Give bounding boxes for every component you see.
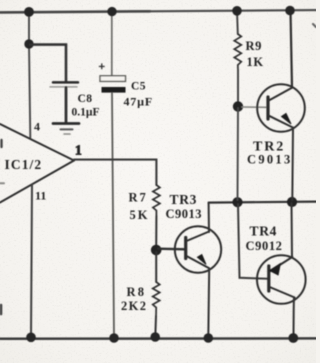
C5 negative plate (102, 87, 126, 93)
transistor TR2 (257, 84, 305, 132)
wire mid node to TR4 base (238, 204, 269, 279)
svg-text:R9: R9 (246, 39, 262, 53)
wire TR2 emitter to mid rail (291, 128, 294, 200)
node junction at C8 branch (24, 39, 33, 48)
svg-text:R8: R8 (127, 285, 147, 299)
wire TR3 emitter to ground rail (207, 268, 210, 337)
svg-text:5K: 5K (130, 208, 150, 222)
op-amp IC1/2 (0, 124, 74, 203)
wire R9 to TR2 base node (237, 70, 239, 104)
edge mark left lower (0, 305, 2, 314)
wire C5 bottom lead to ground rail (112, 93, 114, 338)
wire TR2 base lead (242, 106, 267, 108)
wire bottom ground rail (0, 337, 316, 340)
svg-text:R7: R7 (129, 191, 148, 205)
wire op-amp pin 11 to ground rail (31, 185, 32, 338)
wire base node down to mid node (237, 108, 240, 200)
wire top supply rail (0, 11, 150, 12)
node junction R7 R8 base TR3 (151, 245, 162, 256)
node junction top rail TR2 (285, 6, 295, 16)
wire base of TR3 (158, 247, 186, 250)
wire TR4 collector to ground rail (293, 297, 296, 337)
svg-text:47µF: 47µF (124, 95, 153, 109)
edge mark top right (313, 24, 316, 27)
wire C8 to ground (65, 88, 68, 123)
node junction R8 at ground (150, 332, 160, 342)
svg-text:C9013: C9013 (247, 153, 293, 167)
wire TR2 collector to top rail (291, 11, 293, 88)
wire top rail to R9 (236, 11, 239, 35)
svg-text:TR4: TR4 (250, 224, 278, 239)
edge mark left upper (0, 140, 2, 147)
resistor R9 (234, 34, 241, 70)
wire from top rail to op-amp pin 4 (29, 12, 30, 138)
wire mid rail (emitter output) (209, 202, 316, 203)
wire TR4 emitter to mid rail (291, 203, 294, 257)
wire junction to R8 (155, 252, 157, 282)
node junction TR3 emitter ground (204, 333, 214, 343)
wire R8 to ground rail (154, 316, 157, 337)
node junction mid rail left (232, 197, 242, 207)
svg-text:TR3: TR3 (170, 192, 198, 207)
edge mark left middle (0, 182, 4, 184)
svg-text:2K2: 2K2 (121, 299, 147, 313)
svg-text:1: 1 (75, 143, 82, 158)
node junction mid rail right (287, 197, 297, 207)
capacitor C8 top plate (53, 81, 78, 84)
wire C5 top lead (111, 11, 113, 76)
node junction top rail left (24, 7, 34, 17)
svg-text:IC1/2: IC1/2 (5, 157, 43, 172)
wire R7 to junction (155, 216, 157, 248)
transistor TR3 (175, 226, 221, 272)
svg-text:C9013: C9013 (166, 207, 203, 221)
svg-text:C5: C5 (131, 81, 146, 93)
svg-text:1K: 1K (247, 55, 264, 69)
ground symbol (53, 124, 79, 135)
svg-text:11: 11 (35, 189, 46, 203)
capacitor C5 electrolytic (99, 7, 153, 343)
node junction top rail C5 (107, 7, 116, 16)
node junction pin11 at ground (26, 333, 36, 343)
wire branch to capacitor C8 (30, 45, 66, 81)
node junction C5 at ground (109, 333, 119, 343)
svg-text:0.1µF: 0.1µF (72, 107, 100, 119)
node junction TR2 base (233, 101, 243, 111)
svg-text:4: 4 (34, 120, 40, 134)
resistor R8 (153, 282, 160, 316)
node junction top rail R9 (232, 6, 242, 16)
wire op-amp output pin 1 to R7 (74, 160, 156, 185)
C5 positive plate (100, 76, 126, 82)
node junction TR4 collector ground (288, 333, 298, 343)
svg-text:C9012: C9012 (246, 239, 283, 253)
resistor R7 (153, 185, 160, 216)
svg-text:C8: C8 (78, 93, 93, 105)
capacitor C8 bottom plate (50, 86, 77, 88)
svg-text:+: + (99, 61, 106, 73)
wire TR3 collector up to mid rail (208, 203, 210, 232)
transistor TR4 (257, 255, 306, 304)
